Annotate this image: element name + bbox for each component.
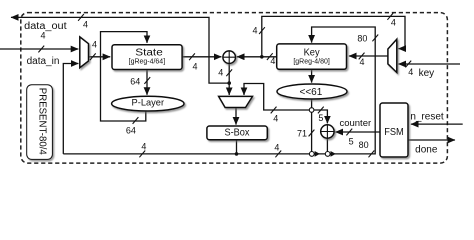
svg-text:4: 4 xyxy=(92,40,97,50)
svg-text:71: 71 xyxy=(297,128,307,138)
svg-text:done: done xyxy=(415,144,438,155)
svg-text:[gReg-4/64]: [gReg-4/64] xyxy=(129,57,166,66)
svg-text:80: 80 xyxy=(359,140,369,150)
svg-text:FSM: FSM xyxy=(384,126,404,138)
svg-text:80: 80 xyxy=(357,34,367,44)
svg-text:n_reset: n_reset xyxy=(410,111,444,122)
svg-text:4: 4 xyxy=(273,113,278,123)
svg-text:4: 4 xyxy=(359,57,364,67)
svg-text:counter: counter xyxy=(339,118,371,129)
svg-text:4: 4 xyxy=(274,142,279,152)
svg-text:4: 4 xyxy=(218,68,223,78)
svg-text:4: 4 xyxy=(192,62,197,72)
svg-text:4: 4 xyxy=(83,20,88,30)
svg-text:5: 5 xyxy=(318,113,323,123)
svg-text:S-Box: S-Box xyxy=(225,128,250,139)
svg-text:64: 64 xyxy=(126,125,136,135)
svg-text:[gReg-4/80]: [gReg-4/80] xyxy=(293,57,330,66)
svg-text:4: 4 xyxy=(391,17,396,27)
svg-text:4: 4 xyxy=(252,26,257,36)
svg-text:P-Layer: P-Layer xyxy=(132,97,165,108)
svg-text:key: key xyxy=(419,68,435,79)
svg-text:4: 4 xyxy=(408,67,413,77)
svg-text:4: 4 xyxy=(141,142,146,152)
svg-text:data_in: data_in xyxy=(27,56,60,67)
svg-text:5: 5 xyxy=(349,136,354,146)
svg-text:4: 4 xyxy=(40,31,45,41)
svg-text:64: 64 xyxy=(130,76,140,86)
svg-text:<<61: <<61 xyxy=(299,87,322,98)
svg-text:PRESENT-80/4: PRESENT-80/4 xyxy=(37,88,48,155)
svg-text:4: 4 xyxy=(270,56,275,66)
